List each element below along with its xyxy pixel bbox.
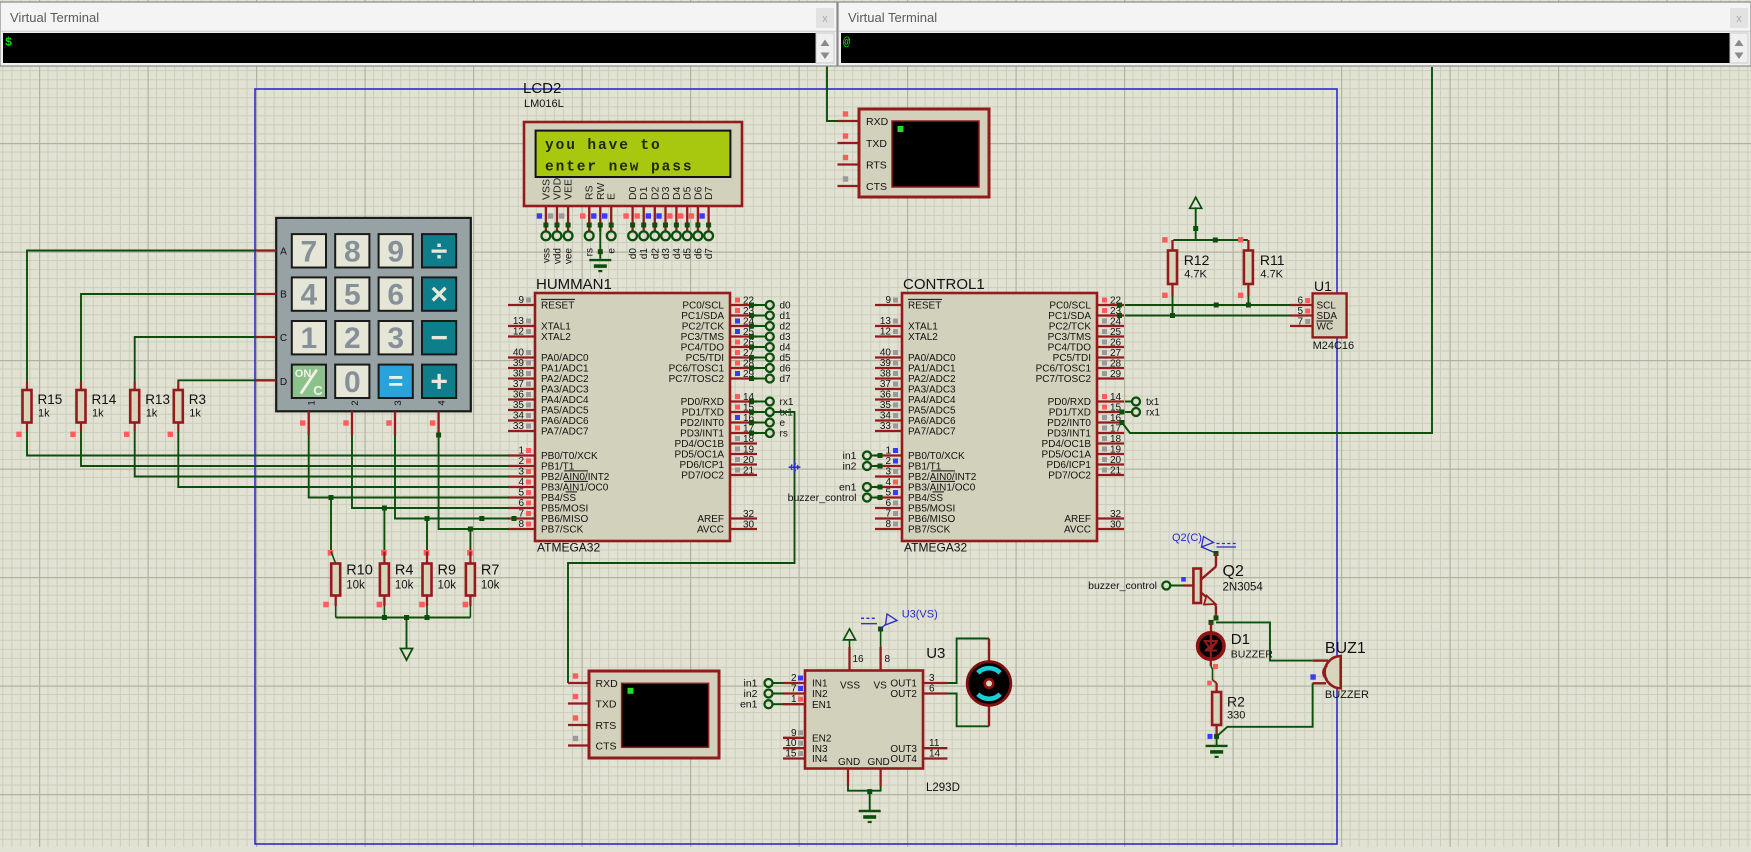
svg-text:d6: d6 [693, 248, 704, 260]
svg-text:1k: 1k [92, 408, 104, 420]
wire VT1 RXD up to terminal window [827, 66, 838, 121]
svg-text:tx1: tx1 [1146, 397, 1160, 408]
svg-text:ATMEGA32: ATMEGA32 [904, 541, 967, 555]
svg-text:PC7/TOSC2: PC7/TOSC2 [1036, 374, 1092, 385]
svg-text:XTAL2: XTAL2 [908, 332, 938, 343]
svg-text:OUT4: OUT4 [890, 754, 917, 765]
svg-text:PA3/ADC3: PA3/ADC3 [541, 385, 589, 396]
wire keypad col 2 to HUMMAN1 PB5 [352, 435, 509, 508]
node in1,in2,en1 terminals (U3) [740, 678, 783, 711]
svg-text:2: 2 [885, 456, 891, 467]
svg-text:34: 34 [513, 411, 525, 422]
svg-text:PD4/OC1B: PD4/OC1B [675, 439, 725, 450]
svg-text:17: 17 [1110, 424, 1122, 435]
svg-text:32: 32 [743, 509, 755, 520]
wire U3 OUT2 to motor [947, 694, 989, 727]
svg-text:33: 33 [880, 421, 892, 432]
svg-text:PB7/SCK: PB7/SCK [908, 525, 951, 536]
svg-text:38: 38 [513, 369, 525, 380]
svg-text:vss: vss [541, 248, 552, 263]
svg-text:HUMMAN1: HUMMAN1 [536, 276, 612, 293]
svg-text:6: 6 [518, 498, 524, 509]
svg-text:VSS: VSS [840, 681, 860, 692]
svg-text:LCD2: LCD2 [523, 80, 561, 97]
svg-text:Q2: Q2 [1223, 563, 1244, 580]
node buzzer_control terminal (Q2 base) [1088, 580, 1183, 592]
svg-text:AVCC: AVCC [697, 525, 724, 536]
svg-text:6: 6 [1297, 296, 1303, 307]
svg-text:A: A [280, 246, 287, 257]
svg-text:AREF: AREF [1064, 514, 1091, 525]
svg-text:PD6/ICP1: PD6/ICP1 [680, 460, 725, 471]
svg-text:C: C [280, 333, 287, 344]
svg-text:PA4/ADC4: PA4/ADC4 [908, 395, 956, 406]
eeprom U1 M24C16 [1290, 278, 1354, 352]
wire SCL net (CONTROL1 PC0 - U1) [1117, 303, 1290, 308]
svg-text:BUZ1: BUZ1 [1325, 640, 1366, 657]
svg-text:21: 21 [1110, 466, 1122, 477]
svg-text:R15: R15 [38, 392, 63, 407]
wire SDA net (CONTROL1 PC1 - U1) [1117, 313, 1290, 318]
wire R14 to HUMMAN1 PB1 [81, 431, 509, 466]
voltage probe U3(VS) [861, 609, 938, 671]
voltage probe Q2(C) [1172, 532, 1236, 553]
svg-text:PB5/MOSI: PB5/MOSI [541, 504, 588, 515]
svg-text:PD1/TXD: PD1/TXD [1049, 408, 1091, 419]
svg-text:PA0/ADC0: PA0/ADC0 [908, 353, 956, 364]
wire CONTROL1 PD2 to right VT (long) [1120, 67, 1433, 433]
svg-text:d3: d3 [780, 332, 792, 343]
svg-text:d0: d0 [780, 301, 792, 312]
svg-text:15: 15 [785, 749, 797, 760]
svg-text:GND: GND [868, 757, 890, 768]
origin marker [789, 461, 801, 473]
svg-text:R10: R10 [346, 563, 373, 579]
keypad row pins [256, 251, 277, 381]
resistor R3 1k [168, 382, 206, 437]
svg-text:18: 18 [1110, 434, 1122, 445]
svg-text:10k: 10k [481, 580, 500, 592]
svg-text:10k: 10k [395, 580, 414, 592]
svg-text:30: 30 [743, 520, 755, 531]
svg-text:6: 6 [929, 684, 935, 695]
svg-text:in2: in2 [842, 461, 856, 473]
svg-text:d2: d2 [780, 322, 792, 333]
svg-text:19: 19 [1110, 445, 1122, 456]
sheet border frame [255, 89, 1337, 844]
LCD display LCD2 LM016L [523, 80, 742, 206]
svg-text:PD3/INT1: PD3/INT1 [1047, 429, 1091, 440]
svg-text:9: 9 [885, 295, 891, 306]
svg-text:34: 34 [880, 411, 892, 422]
svg-text:PC1/SDA: PC1/SDA [681, 311, 724, 322]
svg-text:U1: U1 [1314, 278, 1332, 294]
svg-text:RXD: RXD [596, 678, 619, 690]
svg-text:18: 18 [743, 434, 755, 445]
wire tx1 net to VT2 RXD [568, 412, 795, 683]
svg-text:PD0/RXD: PD0/RXD [681, 397, 724, 408]
svg-text:1: 1 [791, 694, 797, 705]
svg-text:EN2: EN2 [812, 733, 832, 744]
svg-text:AVCC: AVCC [1064, 525, 1091, 536]
wire LCD RW to ground [598, 225, 603, 259]
svg-text:TXD: TXD [596, 698, 617, 710]
svg-text:PB5/MOSI: PB5/MOSI [908, 504, 955, 515]
ground (R2/BUZ1) [1206, 746, 1228, 757]
svg-text:d1: d1 [780, 311, 792, 322]
svg-text:RXD: RXD [866, 116, 889, 128]
svg-text:4.7K: 4.7K [1184, 269, 1207, 281]
svg-text:d7: d7 [780, 374, 792, 385]
svg-text:IN1: IN1 [812, 679, 828, 690]
svg-text:14: 14 [929, 749, 941, 760]
svg-text:rx1: rx1 [1146, 408, 1160, 419]
svg-text:1: 1 [301, 322, 318, 355]
svg-text:13: 13 [880, 316, 892, 327]
svg-text:PA3/ADC3: PA3/ADC3 [908, 385, 956, 396]
svg-text:8: 8 [344, 235, 361, 268]
svg-text:PD5/OC1A: PD5/OC1A [675, 450, 725, 461]
svg-text:36: 36 [513, 390, 525, 401]
resistor R7 10k [463, 527, 500, 618]
resistor R13 1k [124, 382, 170, 437]
svg-text:PC7/TOSC2: PC7/TOSC2 [669, 374, 725, 385]
svg-text:Q2(C): Q2(C) [1172, 532, 1202, 544]
svg-text:−: − [430, 322, 448, 355]
svg-text:RTS: RTS [866, 159, 887, 171]
svg-text:PC3/TMS: PC3/TMS [1048, 332, 1092, 343]
svg-text:12: 12 [880, 327, 892, 338]
svg-text:C: C [313, 383, 323, 398]
svg-text:4: 4 [437, 400, 448, 405]
svg-text:AREF: AREF [697, 514, 724, 525]
svg-text:PA1/ADC1: PA1/ADC1 [541, 364, 589, 375]
node rx1,tx1,e,rs terminals (HUMMAN1 PD port) [749, 397, 794, 440]
svg-text:5: 5 [1297, 306, 1303, 317]
buzzer BUZ1 [1310, 640, 1369, 701]
svg-text:3: 3 [393, 400, 404, 405]
svg-text:35: 35 [880, 400, 892, 411]
svg-text:Virtual Terminal: Virtual Terminal [848, 10, 937, 25]
svg-text:d5: d5 [780, 353, 792, 364]
svg-text:PB0/T0/XCK: PB0/T0/XCK [908, 451, 965, 462]
svg-text:29: 29 [1110, 369, 1122, 380]
svg-text:PC5/TDI: PC5/TDI [686, 353, 724, 364]
svg-text:OUT1: OUT1 [890, 679, 917, 690]
svg-text:330: 330 [1227, 710, 1245, 722]
node tx1,rx1 terminals (CONTROL1) [1120, 397, 1161, 419]
wire Q2 emitter to D1 and BUZ1 [1209, 616, 1313, 661]
svg-text:e: e [607, 248, 618, 254]
svg-text:7: 7 [1297, 317, 1303, 328]
svg-text:÷: ÷ [431, 235, 447, 268]
svg-text:1k: 1k [189, 408, 201, 420]
svg-text:40: 40 [880, 348, 892, 359]
svg-text:+: + [430, 365, 448, 398]
svg-text:4: 4 [518, 477, 524, 488]
svg-text:R2: R2 [1227, 694, 1245, 710]
svg-text:PA7/ADC7: PA7/ADC7 [541, 427, 589, 438]
svg-text:6: 6 [387, 279, 404, 312]
svg-text:28: 28 [1110, 359, 1122, 370]
svg-text:PD0/RXD: PD0/RXD [1048, 397, 1091, 408]
svg-text:3: 3 [387, 322, 404, 355]
svg-text:rs: rs [780, 429, 788, 440]
svg-text:9: 9 [518, 295, 524, 306]
resistor R4 10k [377, 506, 414, 618]
svg-text:20: 20 [743, 455, 755, 466]
svg-text:5: 5 [518, 488, 524, 499]
svg-text:buzzer_control: buzzer_control [1088, 580, 1157, 592]
svg-text:PC2/TCK: PC2/TCK [682, 322, 725, 333]
keypad column pins [300, 411, 439, 435]
svg-text:PC6/TOSC1: PC6/TOSC1 [1036, 364, 1092, 375]
svg-text:8: 8 [518, 519, 524, 530]
svg-text:M24C16: M24C16 [1313, 340, 1355, 352]
resistor R12 4.7K [1162, 237, 1209, 315]
svg-text:IN2: IN2 [812, 689, 828, 700]
svg-text:10k: 10k [346, 580, 365, 592]
svg-text:2: 2 [350, 400, 361, 405]
svg-text:PA5/ADC5: PA5/ADC5 [541, 406, 589, 417]
svg-text:13: 13 [513, 316, 525, 327]
svg-text:9: 9 [387, 235, 404, 268]
svg-text:U3: U3 [926, 645, 945, 662]
svg-text:R9: R9 [438, 563, 457, 579]
svg-text:26: 26 [1110, 338, 1122, 349]
svg-text:PC4/TDO: PC4/TDO [681, 343, 725, 354]
svg-text:40: 40 [513, 348, 525, 359]
svg-text:d3: d3 [661, 248, 672, 260]
svg-text:6: 6 [885, 498, 891, 509]
ground arrow (keypad pulldowns) [401, 649, 413, 661]
svg-text:d4: d4 [780, 343, 792, 354]
power VCC arrow (pullups) [1190, 197, 1202, 240]
wire 10k common bus to ground [336, 615, 471, 648]
svg-text:8: 8 [885, 654, 891, 665]
svg-text:buzzer_control: buzzer_control [788, 492, 857, 504]
svg-text:XTAL1: XTAL1 [541, 322, 571, 333]
LCD pins and terminals [537, 206, 715, 264]
node d0-d7 terminals (HUMMAN1 PC port) [749, 301, 791, 386]
svg-text:vdd: vdd [553, 248, 564, 264]
svg-text:0: 0 [344, 366, 361, 399]
svg-text:R12: R12 [1184, 252, 1210, 268]
svg-text:24: 24 [1110, 317, 1122, 328]
svg-text:EN1: EN1 [812, 700, 832, 711]
svg-text:PD2/INT0: PD2/INT0 [1047, 418, 1091, 429]
svg-text:SCL: SCL [1317, 301, 1337, 312]
svg-text:2N3054: 2N3054 [1223, 582, 1264, 594]
svg-text:R11: R11 [1260, 252, 1285, 268]
resistor R10 10k [323, 495, 373, 618]
svg-text:PD3/INT1: PD3/INT1 [680, 429, 724, 440]
svg-text:7: 7 [301, 235, 318, 268]
svg-text:PC0/SCL: PC0/SCL [1049, 301, 1091, 312]
svg-text:IN4: IN4 [812, 754, 828, 765]
svg-text:27: 27 [1110, 348, 1122, 359]
svg-text:PA1/ADC1: PA1/ADC1 [908, 364, 956, 375]
svg-text:PC4/TDO: PC4/TDO [1048, 343, 1092, 354]
driver U3 L293D [783, 645, 960, 794]
transistor Q2 2N3054 [1181, 551, 1263, 618]
motor (DC motor) [967, 639, 1011, 727]
svg-text:$: $ [5, 36, 12, 50]
svg-text:38: 38 [880, 369, 892, 380]
svg-text:1k: 1k [146, 408, 158, 420]
svg-text:PB4/SS: PB4/SS [541, 493, 576, 504]
svg-text:PA2/ADC2: PA2/ADC2 [908, 374, 956, 385]
svg-text:4: 4 [885, 477, 891, 488]
svg-text:x: x [822, 13, 828, 25]
svg-text:PC2/TCK: PC2/TCK [1049, 322, 1092, 333]
node in1,in2,en1,buzzer_control terminals (CONTROL1 PB port) [788, 450, 883, 504]
svg-text:d6: d6 [780, 364, 792, 375]
svg-text:3: 3 [518, 467, 524, 478]
svg-text:PC0/SCL: PC0/SCL [682, 301, 724, 312]
svg-text:U3(VS): U3(VS) [902, 609, 938, 621]
wire R15 to HUMMAN1 PB0 [27, 431, 509, 456]
resistor R15 1k [16, 382, 62, 437]
resistor R2 330 [1212, 680, 1245, 736]
svg-text:PB7/SCK: PB7/SCK [541, 525, 584, 536]
svg-text:PB0/T0/XCK: PB0/T0/XCK [541, 451, 598, 462]
svg-text:4.7K: 4.7K [1260, 269, 1283, 281]
svg-text:3: 3 [929, 673, 935, 684]
svg-text:9: 9 [791, 728, 797, 739]
svg-text:@: @ [843, 36, 850, 50]
wire keypad col 1 to HUMMAN1 PB4 [309, 435, 509, 498]
svg-text:ATMEGA32: ATMEGA32 [537, 541, 600, 555]
wire D1 cathode to R2 [1207, 659, 1218, 685]
svg-text:E: E [606, 193, 618, 200]
svg-text:D7: D7 [703, 186, 715, 200]
svg-text:×: × [430, 278, 448, 311]
svg-text:37: 37 [880, 379, 892, 390]
svg-text:PD7/OC2: PD7/OC2 [681, 471, 724, 482]
resistor R14 1k [70, 382, 116, 437]
svg-text:10k: 10k [438, 580, 457, 592]
microcontroller HUMMAN1 ATMEGA32 [508, 276, 757, 555]
svg-text:rs: rs [585, 248, 596, 256]
svg-text:BUZZER: BUZZER [1325, 689, 1369, 701]
svg-text:PD7/OC2: PD7/OC2 [1048, 471, 1091, 482]
svg-text:B: B [280, 290, 287, 301]
svg-text:39: 39 [880, 358, 892, 369]
microcontroller CONTROL1 ATMEGA32 [875, 276, 1124, 555]
svg-text:BUZZER: BUZZER [1231, 649, 1273, 661]
svg-text:8: 8 [885, 519, 891, 530]
svg-text:PD2/INT0: PD2/INT0 [680, 418, 724, 429]
svg-text:d7: d7 [704, 248, 715, 260]
svg-text:PD4/OC1B: PD4/OC1B [1042, 439, 1092, 450]
svg-text:D: D [280, 377, 287, 388]
wire U3 GND pins to ground [848, 769, 881, 811]
wire keypad row B to R14 [81, 294, 256, 382]
svg-text:VEE: VEE [563, 179, 575, 200]
svg-text:CTS: CTS [596, 740, 617, 752]
window Virtual Terminal (left) [0, 2, 837, 66]
svg-text:R3: R3 [189, 392, 206, 407]
svg-text:37: 37 [513, 379, 525, 390]
wire pullup top rail [1173, 238, 1248, 243]
svg-text:R4: R4 [395, 563, 414, 579]
svg-text:D1: D1 [1231, 631, 1250, 648]
svg-text:1: 1 [307, 400, 318, 405]
svg-text:32: 32 [1110, 509, 1122, 520]
svg-text:3: 3 [885, 467, 891, 478]
wire BUZ1 return to ground [1208, 683, 1313, 746]
svg-text:TXD: TXD [866, 138, 887, 150]
svg-text:d2: d2 [650, 248, 661, 260]
ground (U3) [859, 811, 881, 822]
svg-text:x: x [1736, 13, 1742, 25]
wire U3 OUT1 to motor [947, 639, 989, 684]
svg-text:PD5/OC1A: PD5/OC1A [1042, 450, 1092, 461]
svg-text:PA5/ADC5: PA5/ADC5 [908, 406, 956, 417]
svg-text:RESET: RESET [541, 301, 574, 312]
svg-text:e: e [780, 418, 786, 429]
svg-text:21: 21 [743, 466, 755, 477]
svg-text:SDA: SDA [1317, 311, 1338, 322]
svg-text:35: 35 [513, 400, 525, 411]
svg-text:R14: R14 [92, 392, 117, 407]
svg-text:PD1/TXD: PD1/TXD [682, 408, 724, 419]
svg-text:25: 25 [1110, 327, 1122, 338]
svg-text:L293D: L293D [926, 782, 960, 794]
keypad 4x4 calculator [276, 218, 471, 411]
svg-text:PB6/MISO: PB6/MISO [908, 514, 955, 525]
svg-text:19: 19 [743, 445, 755, 456]
svg-text:PA6/ADC6: PA6/ADC6 [908, 416, 956, 427]
svg-text:PC6/TOSC1: PC6/TOSC1 [669, 364, 725, 375]
svg-text:Virtual Terminal: Virtual Terminal [10, 10, 99, 25]
svg-text:14: 14 [1110, 392, 1122, 403]
wire keypad row A to R15 [27, 251, 256, 383]
window Virtual Terminal (right) [838, 2, 1751, 66]
svg-text:2: 2 [791, 673, 797, 684]
svg-text:RTS: RTS [596, 720, 617, 732]
svg-text:PC1/SDA: PC1/SDA [1048, 311, 1091, 322]
wire keypad col 4 to HUMMAN1 PB7 [436, 433, 509, 530]
svg-text:7: 7 [885, 509, 891, 520]
svg-text:1: 1 [518, 446, 524, 457]
svg-text:you have to: you have to [545, 138, 662, 154]
svg-text:12: 12 [513, 327, 525, 338]
svg-text:vee: vee [564, 248, 575, 265]
wire R13 to HUMMAN1 PB2 [135, 431, 509, 477]
svg-text:=: = [388, 365, 403, 395]
svg-text:en1: en1 [740, 699, 758, 711]
svg-text:1k: 1k [38, 408, 50, 420]
power VCC arrow (U3 VSS) [844, 629, 865, 671]
svg-text:2: 2 [518, 456, 524, 467]
svg-text:PB6/MISO: PB6/MISO [541, 514, 588, 525]
svg-text:16: 16 [853, 654, 865, 665]
svg-text:LM016L: LM016L [524, 98, 564, 110]
svg-text:5: 5 [344, 279, 361, 312]
svg-text:R7: R7 [481, 563, 500, 579]
svg-text:PC3/TMS: PC3/TMS [681, 332, 725, 343]
wire keypad col 3 to HUMMAN1 PB6 [395, 435, 509, 519]
svg-text:PA0/ADC0: PA0/ADC0 [541, 353, 589, 364]
svg-text:ON: ON [295, 368, 312, 380]
svg-text:4: 4 [301, 279, 318, 312]
svg-text:2: 2 [344, 322, 361, 355]
wire R3 to HUMMAN1 PB3 [178, 431, 509, 487]
svg-text:XTAL2: XTAL2 [541, 332, 571, 343]
svg-text:RESET: RESET [908, 301, 941, 312]
